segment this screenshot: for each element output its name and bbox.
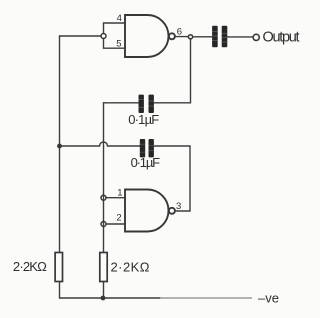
svg-text:3: 3 xyxy=(176,201,181,212)
svg-text:0·1µF: 0·1µF xyxy=(131,155,161,170)
svg-text:–ve: –ve xyxy=(258,290,279,305)
svg-text:1: 1 xyxy=(117,188,122,199)
svg-text:6: 6 xyxy=(177,26,182,37)
svg-text:4: 4 xyxy=(117,13,122,24)
svg-text:2·2KΩ: 2·2KΩ xyxy=(13,259,47,274)
svg-text:5: 5 xyxy=(116,39,121,50)
svg-text:2·2KΩ: 2·2KΩ xyxy=(111,260,150,275)
svg-text:Output: Output xyxy=(263,30,300,46)
svg-text:0·1µF: 0·1µF xyxy=(128,112,159,127)
svg-text:2: 2 xyxy=(116,213,121,224)
